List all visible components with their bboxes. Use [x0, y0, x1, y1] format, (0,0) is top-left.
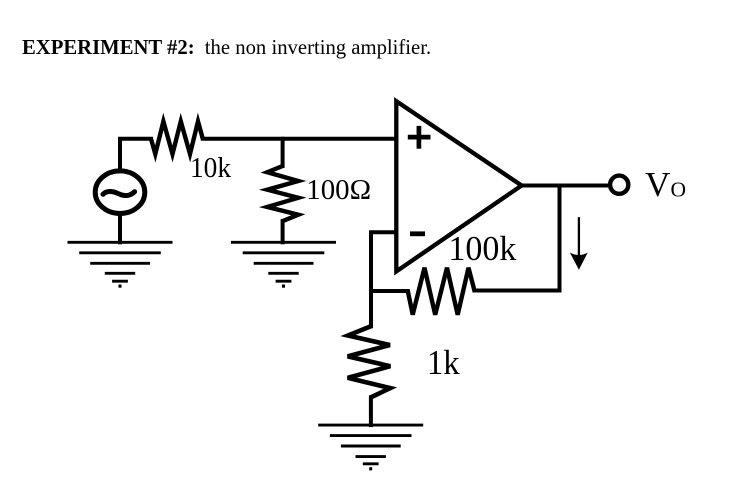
resistor 100k: [408, 268, 475, 315]
svg-text:EXPERIMENT #2:: EXPERIMENT #2:: [22, 37, 195, 59]
svg-text:V: V: [645, 165, 670, 204]
svg-text:100Ω: 100Ω: [306, 175, 371, 206]
ground under 1k: [318, 425, 423, 469]
output terminal: [610, 176, 628, 194]
wire 100Ω to ground: [281, 221, 285, 242]
wire op-amp output: [522, 184, 610, 188]
svg-text:the non inverting amplifier.: the non inverting amplifier.: [205, 37, 431, 59]
op-amp plus input symbol: [408, 126, 431, 149]
ground under 100Ω: [231, 242, 336, 286]
AC source VS: [95, 171, 145, 214]
ground under source: [68, 242, 173, 286]
resistor 10k: [151, 121, 203, 154]
current arrow: [570, 217, 588, 270]
wire 10k to op-amp noninverting input: [203, 137, 395, 141]
wire op-amp inverting input: [371, 232, 395, 291]
wire 1k to ground: [369, 397, 373, 425]
wire feedback node to resistor 100k: [371, 289, 408, 293]
op-amp U1: [396, 101, 521, 271]
op-amp minus input symbol: [410, 231, 425, 236]
svg-text:100k: 100k: [448, 229, 516, 268]
wire junction down to resistor 100Ω: [281, 139, 285, 166]
svg-text:1k: 1k: [427, 343, 460, 382]
resistor 100Ω: [267, 166, 298, 221]
svg-text:O: O: [671, 178, 687, 202]
wire source to resistor 10k: [120, 139, 151, 169]
svg-text:10k: 10k: [190, 153, 231, 184]
wire 100k to output drop: [474, 186, 559, 291]
wire feedback node down to resistor 1k: [369, 291, 373, 326]
wire source bottom to ground: [118, 214, 122, 242]
resistor 1k: [348, 326, 391, 397]
